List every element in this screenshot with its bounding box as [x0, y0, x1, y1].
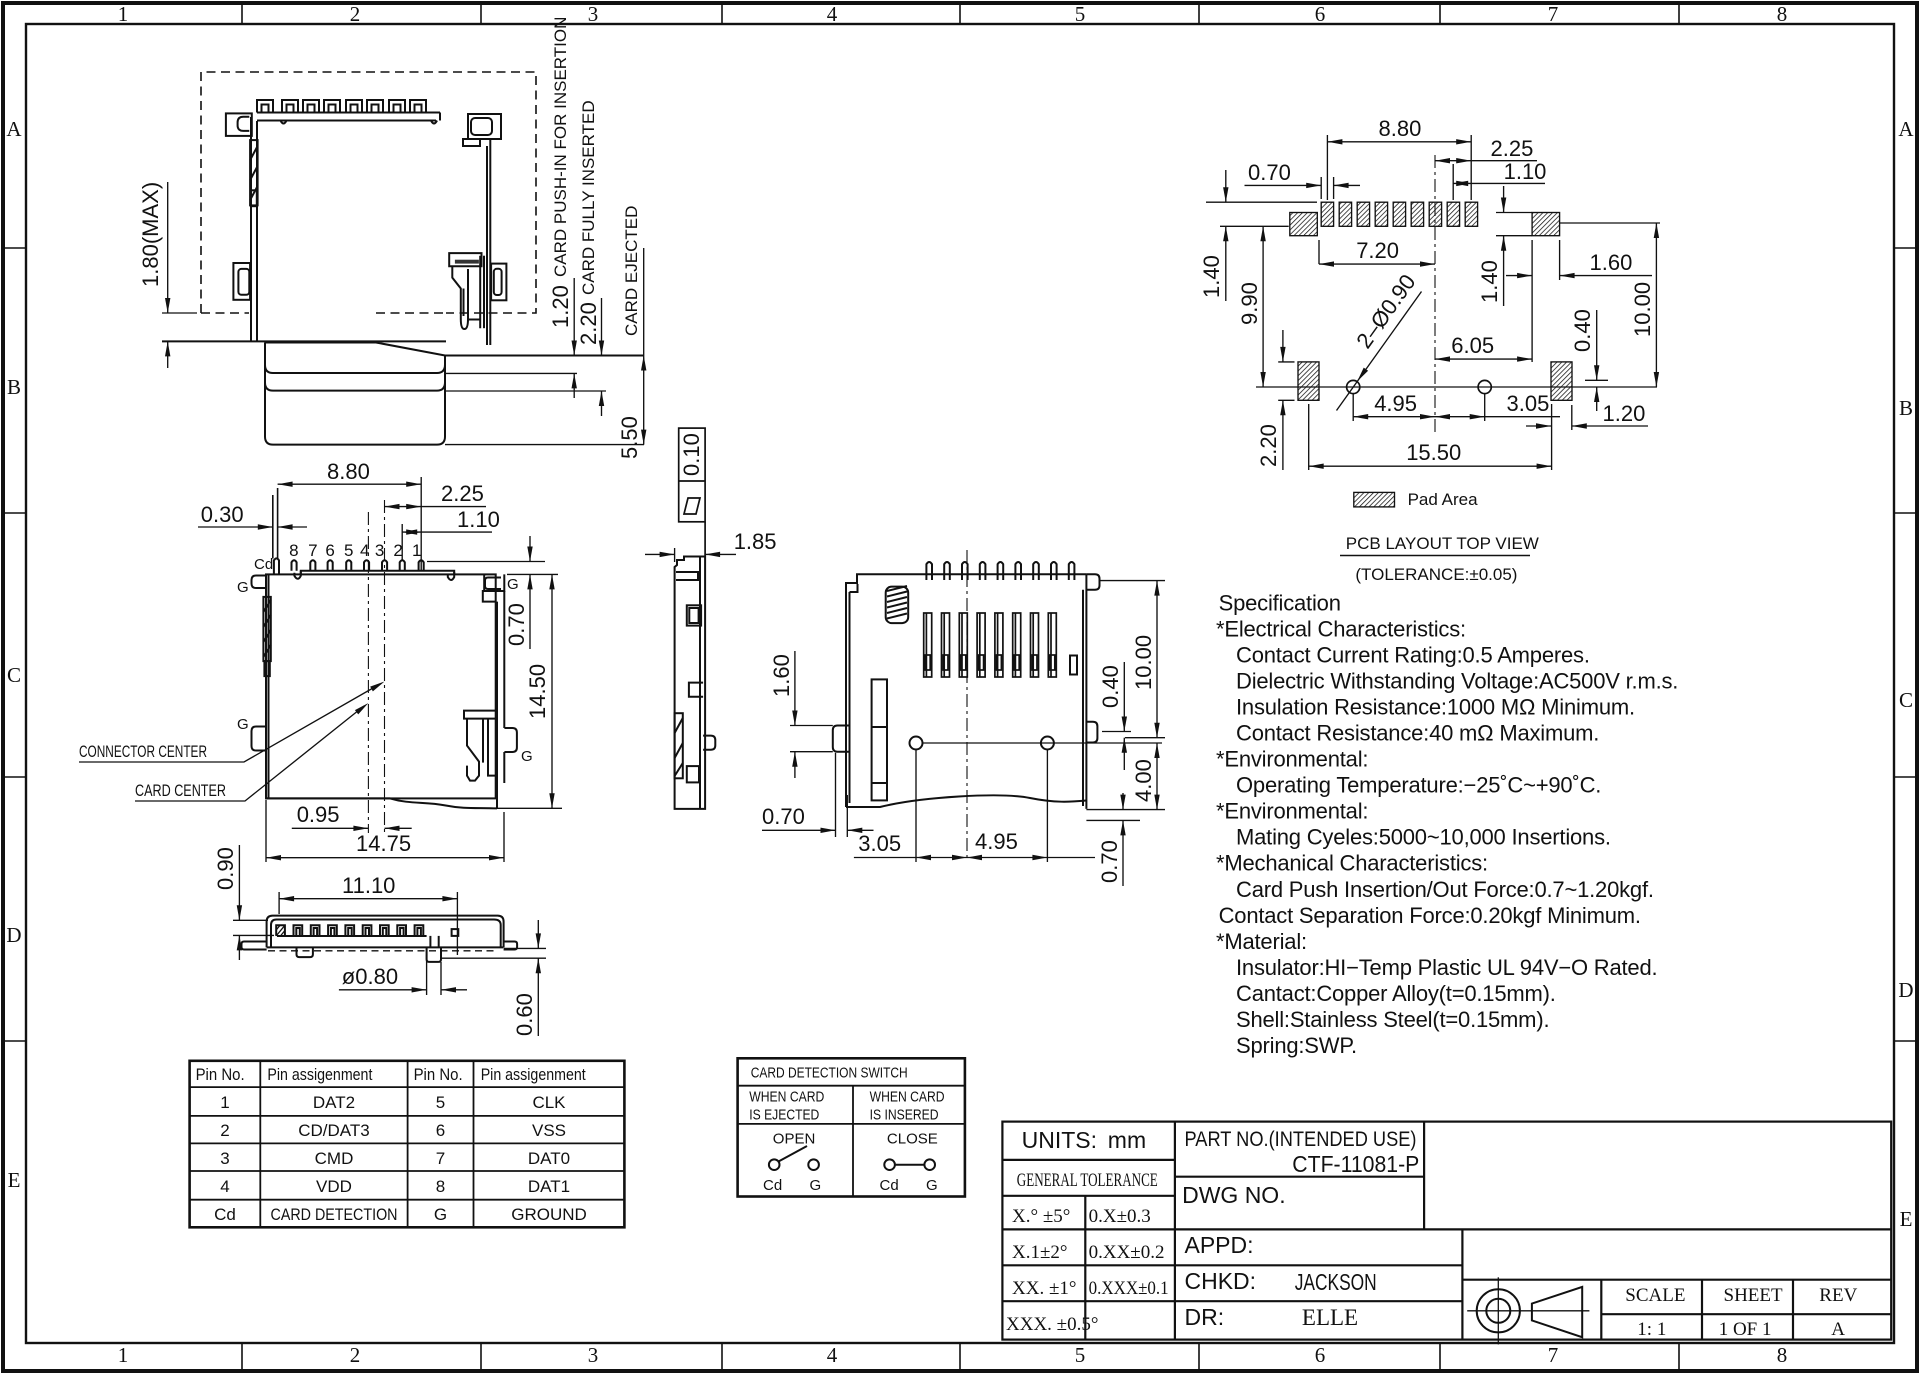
svg-text:D: D — [6, 923, 21, 947]
svg-text:0.10: 0.10 — [679, 433, 704, 476]
svg-text:JACKSON: JACKSON — [1295, 1269, 1377, 1295]
svg-text:Pin assigenment: Pin assigenment — [481, 1065, 586, 1084]
svg-text:0.70: 0.70 — [1097, 840, 1122, 883]
svg-text:CMD: CMD — [315, 1149, 354, 1168]
svg-text:1.80(MAX): 1.80(MAX) — [138, 182, 163, 287]
svg-text:IS EJECTED: IS EJECTED — [749, 1107, 819, 1124]
svg-text:4.00: 4.00 — [1131, 759, 1156, 802]
top terminal stubs — [926, 562, 932, 580]
third angle projection symbol — [1467, 1277, 1589, 1344]
svg-text:1.60: 1.60 — [769, 654, 794, 697]
svg-text:SCALE: SCALE — [1625, 1285, 1685, 1306]
svg-text:(TOLERANCE:±0.05): (TOLERANCE:±0.05) — [1355, 565, 1517, 584]
connector bottom resting line — [162, 340, 446, 342]
svg-text:Cd: Cd — [763, 1177, 782, 1194]
svg-text:Mating Cyeles:5000~10,000 In: Mating Cyeles:5000~10,000 Insertions. — [1236, 825, 1611, 850]
dim 6.05 (pcb) — [1435, 358, 1532, 360]
svg-text:0.60: 0.60 — [512, 993, 537, 1036]
svg-text:0.70: 0.70 — [762, 804, 805, 829]
svg-text:1.60: 1.60 — [1590, 250, 1633, 275]
svg-text:4: 4 — [827, 1343, 838, 1367]
dim 0.60 (view C right) — [441, 920, 546, 1036]
svg-text:8: 8 — [436, 1177, 445, 1196]
svg-text:1: 1 — [220, 1093, 229, 1112]
solder legs — [297, 947, 313, 957]
ground ear top-right bracket — [484, 574, 504, 591]
dim 0.70 (view E lower right) — [1086, 793, 1140, 886]
svg-text:B: B — [7, 375, 21, 399]
dim 7.20 (pcb) — [1319, 240, 1435, 264]
svg-text:XXX. ±0.5°: XXX. ±0.5° — [1006, 1314, 1098, 1335]
svg-text:1.20: 1.20 — [1603, 401, 1646, 426]
top-right mounting ear — [468, 114, 501, 139]
ground ear right-lower — [504, 728, 517, 752]
dim 1.10 (pcb) — [1453, 164, 1545, 200]
svg-text:1 OF 1: 1 OF 1 — [1719, 1319, 1772, 1340]
label CARD EJECTED and dim 5.50 — [643, 248, 645, 445]
dim 0.40 (pcb) — [1585, 310, 1608, 411]
zone ticks bottom — [241, 1343, 243, 1371]
svg-text:A: A — [6, 117, 22, 141]
contact slots x8 — [924, 613, 1057, 677]
svg-text:1.40: 1.40 — [1477, 260, 1502, 303]
centreline vertical — [1434, 155, 1436, 432]
pad area legend — [1354, 492, 1395, 507]
dim 9.90 (pcb) — [1262, 226, 1264, 387]
left wall spring hatched — [263, 597, 270, 661]
svg-text:8.80: 8.80 — [1379, 116, 1422, 141]
svg-text:G: G — [237, 716, 249, 733]
svg-text:VDD: VDD — [316, 1177, 352, 1196]
body outline — [846, 574, 1086, 807]
ground ear mid-left — [252, 727, 267, 751]
body outline — [266, 574, 496, 798]
svg-text:CARD EJECTED: CARD EJECTED — [622, 206, 641, 336]
svg-text:DR:: DR: — [1185, 1304, 1225, 1330]
body bottom break — [266, 798, 497, 808]
dim Ø0.80 (view C) — [339, 955, 467, 995]
svg-text:0.30: 0.30 — [201, 502, 244, 527]
svg-text:REV: REV — [1819, 1285, 1857, 1306]
svg-text:8: 8 — [1777, 2, 1788, 26]
svg-text:G: G — [507, 576, 519, 593]
svg-text:4: 4 — [827, 2, 838, 26]
svg-text:B: B — [1899, 396, 1913, 420]
right edge — [1085, 574, 1087, 809]
svg-text:C: C — [1899, 688, 1913, 712]
pin stubs 8..1 — [292, 560, 297, 571]
svg-text:0.XX±0.2: 0.XX±0.2 — [1089, 1242, 1165, 1263]
svg-text:4.95: 4.95 — [1374, 391, 1417, 416]
closed switch symbol — [884, 1159, 935, 1170]
flatness feature control frame 0.10 — [679, 428, 705, 556]
svg-text:X.1±2°: X.1±2° — [1012, 1242, 1068, 1263]
svg-text:2: 2 — [350, 2, 361, 26]
svg-text:XX. ±1°: XX. ±1° — [1012, 1278, 1076, 1299]
svg-text:Operating Temperature:−25˚C~+: Operating Temperature:−25˚C~+90˚C. — [1236, 773, 1601, 798]
dim 2.20 (pcb) — [1278, 330, 1294, 470]
svg-text:D: D — [1898, 978, 1913, 1002]
svg-text:1.85: 1.85 — [734, 529, 777, 554]
leader CONNECTOR CENTER — [79, 684, 380, 762]
svg-text:7: 7 — [308, 541, 317, 560]
svg-text:CLK: CLK — [532, 1093, 566, 1112]
svg-text:PART NO.(INTENDED USE): PART NO.(INTENDED USE) — [1185, 1128, 1417, 1151]
hidden edge dashed — [268, 950, 498, 952]
svg-text:CD/DAT3: CD/DAT3 — [298, 1121, 369, 1140]
narrow side body — [675, 557, 716, 809]
svg-text:mm: mm — [1108, 1127, 1146, 1153]
svg-text:CHKD:: CHKD: — [1185, 1268, 1257, 1294]
svg-text:G: G — [810, 1177, 822, 1194]
dim 8.80 (pcb) — [1327, 135, 1471, 200]
dim 1.40 (pcb left) — [1206, 170, 1317, 301]
micro SD card (three positions) — [265, 343, 644, 445]
svg-text:3: 3 — [220, 1149, 229, 1168]
svg-text:Shell:Stainless Steel(t=0.15m: Shell:Stainless Steel(t=0.15mm). — [1236, 1007, 1549, 1032]
svg-text:2: 2 — [350, 1343, 361, 1367]
corner pads — [1290, 213, 1318, 236]
hole axis line — [1256, 386, 1657, 388]
svg-text:WHEN CARD: WHEN CARD — [749, 1089, 824, 1106]
open switch symbol — [769, 1146, 819, 1170]
svg-text:*Mechanical Characteristics:: *Mechanical Characteristics: — [1216, 851, 1488, 876]
svg-text:A: A — [1831, 1319, 1845, 1340]
leader CARD CENTER — [135, 706, 364, 801]
svg-text:Contact Separation Force:0.2: Contact Separation Force:0.20kgf Minimum… — [1219, 903, 1641, 928]
svg-text:0.95: 0.95 — [297, 802, 340, 827]
svg-text:DAT1: DAT1 — [528, 1177, 570, 1196]
top-right ear tab — [1086, 574, 1099, 590]
dim 14.75 (view B) — [266, 800, 504, 862]
svg-text:7.20: 7.20 — [1356, 238, 1399, 263]
lower-right ear tab — [1086, 722, 1097, 743]
svg-text:14.75: 14.75 — [356, 831, 411, 856]
svg-text:UNITS:: UNITS: — [1022, 1127, 1097, 1153]
svg-text:5.50: 5.50 — [617, 416, 642, 459]
connector shell side view — [162, 100, 506, 345]
dim 0.90 (view C left) — [233, 845, 274, 960]
svg-text:6: 6 — [1315, 2, 1326, 26]
svg-text:CARD CENTER: CARD CENTER — [135, 781, 226, 800]
svg-text:PCB LAYOUT TOP VIEW: PCB LAYOUT TOP VIEW — [1346, 534, 1539, 553]
Cd pin stub — [274, 558, 279, 574]
svg-text:11.10: 11.10 — [342, 873, 395, 898]
svg-text:Contact Current Rating:0.5: Contact Current Rating:0.5 Amperes. — [1236, 643, 1590, 668]
svg-text:DWG NO.: DWG NO. — [1182, 1182, 1286, 1208]
dim 11.10 (view C) — [279, 892, 457, 955]
svg-text:0.70: 0.70 — [1248, 160, 1291, 185]
pin tip bumps — [281, 121, 287, 124]
svg-text:9.90: 9.90 — [1237, 282, 1262, 325]
svg-text:1: 1: 1: 1 — [1637, 1319, 1666, 1340]
svg-text:DAT0: DAT0 — [528, 1149, 570, 1168]
svg-text:0.70: 0.70 — [504, 603, 529, 646]
svg-text:5: 5 — [436, 1093, 445, 1112]
svg-text:10.00: 10.00 — [1131, 635, 1156, 690]
svg-text:6.05: 6.05 — [1451, 333, 1494, 358]
svg-text:CARD DETECTION: CARD DETECTION — [271, 1205, 398, 1224]
left wall — [250, 117, 252, 341]
pin platform bar — [301, 571, 454, 575]
svg-text:7: 7 — [1548, 2, 1559, 26]
svg-text:GROUND: GROUND — [511, 1205, 587, 1224]
svg-text:1: 1 — [118, 1343, 129, 1367]
Cd switch contact leads — [272, 495, 274, 559]
dim 1.85 (view D) — [645, 548, 736, 562]
svg-text:0.90: 0.90 — [213, 847, 238, 890]
svg-text:CARD PUSH-IN FOR INSERTION: CARD PUSH-IN FOR INSERTION — [551, 17, 570, 277]
svg-text:2: 2 — [393, 541, 402, 560]
svg-text:CLOSE: CLOSE — [887, 1131, 938, 1148]
svg-text:ø0.80: ø0.80 — [342, 964, 398, 989]
svg-text:2.20: 2.20 — [576, 302, 601, 345]
svg-text:2.20: 2.20 — [1256, 424, 1281, 467]
svg-text:5: 5 — [1075, 1343, 1086, 1367]
svg-text:10.00: 10.00 — [1630, 282, 1655, 337]
mounting feet — [242, 942, 267, 950]
svg-text:DAT2: DAT2 — [313, 1093, 355, 1112]
svg-text:1: 1 — [118, 2, 129, 26]
slot opening — [277, 935, 427, 937]
svg-text:IS INSERED: IS INSERED — [870, 1107, 939, 1124]
svg-text:1.40: 1.40 — [1199, 255, 1224, 298]
zone ticks right — [1894, 247, 1917, 249]
dim 0.95 (view B) — [292, 827, 412, 829]
svg-text:Pad Area: Pad Area — [1408, 490, 1478, 509]
centrelines (connector / card) — [368, 500, 384, 833]
svg-text:*Environmental:: *Environmental: — [1216, 747, 1368, 772]
dim 10.00 (pcb) — [1560, 223, 1660, 387]
dim 1.20 CARD PUSH-IN FOR INSERTION — [573, 278, 575, 398]
svg-text:3: 3 — [588, 1343, 599, 1367]
card-stop latch lower right — [449, 253, 481, 266]
pcb holes — [910, 737, 923, 750]
dim 2.20 CARD FULLY INSERTED — [601, 298, 603, 416]
svg-text:Card Push Insertion/Out For: Card Push Insertion/Out Force:0.7~1.20kg… — [1236, 877, 1654, 902]
svg-text:C: C — [7, 663, 21, 687]
svg-text:Cantact:Copper Alloy(t=0.15mm: Cantact:Copper Alloy(t=0.15mm). — [1236, 981, 1556, 1006]
svg-text:*Environmental:: *Environmental: — [1216, 799, 1368, 824]
dim 8.80 (view B) — [278, 477, 422, 570]
zone ticks left — [4, 247, 26, 249]
left wall spring hatched — [250, 140, 258, 205]
svg-text:Pin assigenment: Pin assigenment — [267, 1065, 372, 1084]
hole centre line — [923, 742, 1163, 744]
svg-text:SHEET: SHEET — [1724, 1285, 1784, 1306]
svg-text:7: 7 — [436, 1149, 445, 1168]
svg-text:G: G — [434, 1205, 447, 1224]
left eject tab — [833, 726, 850, 752]
svg-text:CARD FULLY INSERTED: CARD FULLY INSERTED — [579, 100, 598, 295]
svg-text:WHEN CARD: WHEN CARD — [870, 1089, 945, 1106]
right end divider and window — [429, 936, 431, 948]
svg-text:Cd: Cd — [880, 1177, 899, 1194]
card-stop latch right — [464, 711, 497, 719]
svg-text:3.05: 3.05 — [858, 831, 901, 856]
svg-text:4: 4 — [220, 1177, 229, 1196]
detect spring coil — [886, 587, 909, 624]
dims 4.95 / 3.05 (pcb) — [1353, 394, 1560, 421]
svg-text:G: G — [926, 1177, 938, 1194]
svg-text:6: 6 — [436, 1121, 445, 1140]
small window right — [1070, 656, 1077, 675]
svg-text:E: E — [8, 1168, 21, 1192]
svg-text:8: 8 — [1777, 1343, 1788, 1367]
svg-text:8: 8 — [289, 541, 298, 560]
svg-text:Spring:SWP.: Spring:SWP. — [1236, 1033, 1357, 1058]
leader 2-Ø0.90 — [1337, 292, 1422, 411]
svg-text:14.50: 14.50 — [525, 664, 550, 719]
dim 0.30 (view B) — [198, 526, 307, 528]
dim 1.20 (pcb) — [1526, 405, 1648, 430]
dim 1.80(MAX) — [162, 182, 197, 368]
vertical centreline (view E) — [966, 550, 968, 862]
dim 1.60 (pcb right pad width) — [1506, 240, 1652, 362]
dim 1.10 (view B) — [402, 524, 492, 560]
svg-text:Insulator:HI−Temp Plastic UL: Insulator:HI−Temp Plastic UL 94V−O Rated… — [1236, 955, 1657, 980]
svg-text:1.20: 1.20 — [548, 285, 573, 328]
svg-text:Dielectric Withstanding Volt: Dielectric Withstanding Voltage:AC500V r… — [1236, 669, 1678, 694]
svg-text:6: 6 — [1315, 1343, 1326, 1367]
svg-text:7: 7 — [1548, 1343, 1559, 1367]
svg-text:ELLE: ELLE — [1302, 1305, 1358, 1330]
svg-text:CTF-11081-P: CTF-11081-P — [1292, 1151, 1419, 1177]
dims 3.05 / 4.95 (view E) — [854, 750, 1095, 863]
svg-text:VSS: VSS — [532, 1121, 566, 1140]
bottom edge (break) — [846, 795, 1086, 807]
pin number labels — [289, 541, 421, 560]
right wall — [486, 146, 488, 345]
svg-text:2.25: 2.25 — [441, 481, 484, 506]
svg-text:8.80: 8.80 — [327, 459, 370, 484]
dim 14.50 (view B right) — [497, 574, 562, 808]
dim 2.25 (view B) — [385, 506, 487, 508]
svg-text:GENERAL TOLERANCE: GENERAL TOLERANCE — [1017, 1170, 1158, 1191]
svg-text:APPD:: APPD: — [1185, 1232, 1254, 1258]
svg-text:Cd: Cd — [214, 1205, 236, 1224]
svg-text:6: 6 — [325, 541, 334, 560]
svg-text:4.95: 4.95 — [975, 829, 1018, 854]
svg-text:1: 1 — [412, 541, 421, 560]
pcb mounting holes — [1347, 380, 1360, 393]
dashed envelope box — [201, 72, 536, 313]
svg-text:0.40: 0.40 — [1098, 665, 1123, 708]
dim 2.25 (pcb) — [1435, 160, 1537, 162]
dim 0.40 (view E) — [1123, 662, 1125, 770]
dim 0.70 (view E left) — [762, 753, 874, 837]
svg-text:G: G — [237, 579, 249, 596]
svg-text:2: 2 — [220, 1121, 229, 1140]
svg-text:3.05: 3.05 — [1507, 391, 1550, 416]
svg-text:CARD DETECTION SWITCH: CARD DETECTION SWITCH — [751, 1065, 908, 1082]
svg-text:Insulation Resistance:1000 M: Insulation Resistance:1000 MΩ Minimum. — [1236, 695, 1635, 720]
svg-text:*Material:: *Material: — [1216, 929, 1307, 954]
svg-text:A: A — [1898, 117, 1914, 141]
svg-text:*Electrical Characteristics:: *Electrical Characteristics: — [1216, 617, 1466, 642]
svg-text:5: 5 — [1075, 2, 1086, 26]
svg-text:3: 3 — [375, 541, 384, 560]
terminal labels — [237, 556, 533, 765]
svg-text:CONNECTOR CENTER: CONNECTOR CENTER — [79, 742, 207, 761]
svg-text:1.10: 1.10 — [1504, 159, 1547, 184]
svg-text:E: E — [1900, 1207, 1913, 1231]
svg-text:5: 5 — [344, 541, 353, 560]
left slide member — [872, 679, 887, 800]
svg-text:Pin No.: Pin No. — [196, 1065, 245, 1084]
svg-text:15.50: 15.50 — [1406, 440, 1461, 465]
lower-left ear — [233, 263, 250, 300]
svg-text:Cd: Cd — [254, 556, 273, 573]
svg-text:0.X±0.3: 0.X±0.3 — [1089, 1206, 1151, 1227]
top-left mounting ear — [226, 113, 252, 135]
dim 4.00 (view E right) — [1086, 743, 1165, 810]
svg-text:Contact Resistance:40 mΩ Ma: Contact Resistance:40 mΩ Maximum. — [1236, 721, 1599, 746]
svg-text:3: 3 — [588, 2, 599, 26]
dim 10.00 (view E right) — [1100, 581, 1166, 738]
dim 1.40 (pcb right pad) — [1496, 186, 1532, 306]
dim 1.60 (view E) — [794, 651, 796, 778]
contact pins in slot — [276, 925, 285, 936]
svg-text:G: G — [521, 748, 533, 765]
dim 15.50 (pcb) — [1309, 404, 1552, 470]
svg-text:2.25: 2.25 — [1491, 136, 1534, 161]
dim 0.70 (view B right) — [427, 536, 558, 649]
svg-text:0.40: 0.40 — [1570, 309, 1595, 352]
svg-text:1.10: 1.10 — [457, 507, 500, 532]
9 contact pads — [1290, 202, 1572, 400]
svg-text:Specification: Specification — [1219, 591, 1341, 616]
lower-right ear — [491, 264, 506, 301]
svg-text:0.XXX±0.1: 0.XXX±0.1 — [1089, 1278, 1169, 1299]
svg-text:OPEN: OPEN — [773, 1131, 816, 1148]
top contact pins — [257, 100, 273, 113]
dim 0.70 (pcb) — [1245, 177, 1361, 199]
ground ear top-left — [252, 576, 267, 589]
top pin rail — [257, 112, 440, 114]
shell outline — [267, 916, 504, 948]
bottom edge — [267, 946, 504, 948]
svg-text:Pin No.: Pin No. — [414, 1065, 463, 1084]
svg-text:X.° ±5°: X.° ±5° — [1012, 1206, 1070, 1227]
right inner wall — [496, 602, 498, 809]
